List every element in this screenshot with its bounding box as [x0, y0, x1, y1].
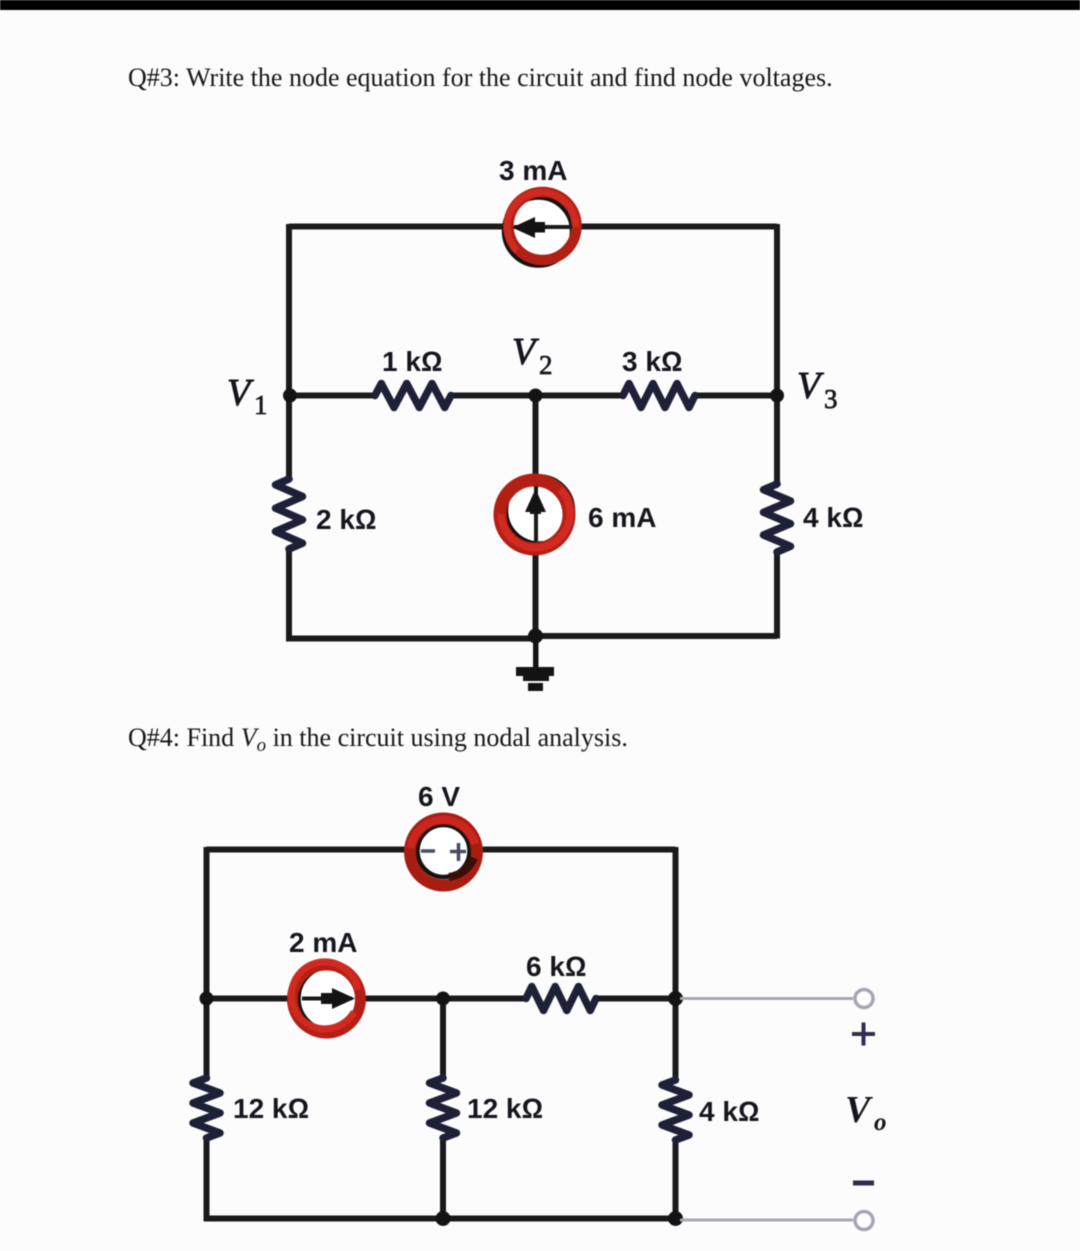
wire middle branch c2: [440, 999, 446, 1079]
svg-text:o: o: [874, 1109, 887, 1136]
node dot V2: [529, 389, 543, 403]
resistor 12 kOhm middle: [430, 1078, 457, 1138]
svg-text:12 kΩ: 12 kΩ: [467, 1093, 543, 1124]
wire right rail lower c2: [673, 1140, 679, 1221]
junction dot bottom center: [528, 629, 543, 644]
wire right rail lower: [774, 552, 780, 639]
svg-text:Q#4: Find Vo in the circuit us: Q#4: Find Vo in the circuit using nodal …: [128, 723, 628, 756]
plus sign output: [852, 1023, 875, 1046]
resistor 2 kOhm: [276, 479, 303, 549]
resistor 4 kOhm c2: [662, 1080, 689, 1140]
svg-text:V: V: [845, 1089, 873, 1131]
svg-text:3 mA: 3 mA: [499, 155, 567, 186]
svg-text:V: V: [227, 372, 254, 414]
svg-text:12 kΩ: 12 kΩ: [233, 1093, 309, 1124]
wire left rail: [286, 224, 292, 479]
wire middle row c2: [207, 996, 527, 1002]
junction dot c2 bottom mid: [436, 1211, 451, 1226]
wire output top (grey): [680, 997, 853, 1000]
resistor 1 kOhm: [375, 384, 451, 408]
svg-text:V: V: [512, 331, 539, 373]
minus sign output: [853, 1181, 874, 1186]
svg-text:2 mA: 2 mA: [289, 927, 357, 958]
junction dot c2 bottom right: [668, 1211, 683, 1226]
voltage source 6 V: [410, 819, 477, 886]
scanner black bar: [0, 0, 1080, 10]
svg-text:6 V: 6 V: [418, 781, 460, 812]
svg-text:1 kΩ: 1 kΩ: [382, 346, 442, 377]
svg-text:6 kΩ: 6 kΩ: [526, 951, 586, 982]
ground: [516, 636, 554, 691]
svg-text:4 kΩ: 4 kΩ: [699, 1096, 759, 1127]
svg-text:2 kΩ: 2 kΩ: [316, 504, 376, 535]
svg-text:Q#3: Write the node equation f: Q#3: Write the node equation for the cir…: [128, 63, 833, 92]
wire right rail c2: [673, 847, 679, 1080]
wire top rail c2: [207, 847, 411, 853]
wire middle row: [289, 393, 375, 399]
wire right rail upper: [774, 224, 780, 484]
wire bottom rail right: [533, 633, 777, 639]
svg-text:3: 3: [824, 384, 838, 414]
wire left rail c2: [204, 847, 210, 1078]
resistor 6 kOhm: [526, 987, 596, 1011]
wire left rail lower: [289, 549, 538, 639]
svg-text:6 mA: 6 mA: [588, 502, 656, 533]
wire top rail: [289, 224, 777, 230]
terminal output bottom: [855, 1212, 873, 1230]
node dot V1: [283, 389, 297, 403]
resistor 4 kOhm: [764, 484, 791, 552]
current source I3 2 mA: [291, 962, 363, 1033]
svg-text:2: 2: [539, 350, 553, 380]
terminal output top: [855, 990, 873, 1008]
node dot V3: [770, 389, 784, 403]
svg-text:4 kΩ: 4 kΩ: [803, 502, 863, 533]
wire bottom rail c2: [204, 1216, 676, 1222]
node dot c2 right-mid: [668, 991, 683, 1006]
resistor 3 kOhm: [623, 384, 695, 408]
current source I2 6 mA: [500, 477, 573, 549]
wire output bottom (grey): [680, 1219, 853, 1222]
current source I1 3 mA: [505, 192, 577, 265]
wire center branch: [533, 396, 539, 637]
resistor 12 kOhm left: [193, 1078, 220, 1138]
node dot c2 left-mid: [200, 992, 214, 1006]
junction dot c2 mid: [436, 992, 450, 1006]
svg-text:V: V: [797, 365, 824, 407]
svg-text:1: 1: [254, 390, 268, 420]
svg-text:3 kΩ: 3 kΩ: [622, 346, 682, 377]
